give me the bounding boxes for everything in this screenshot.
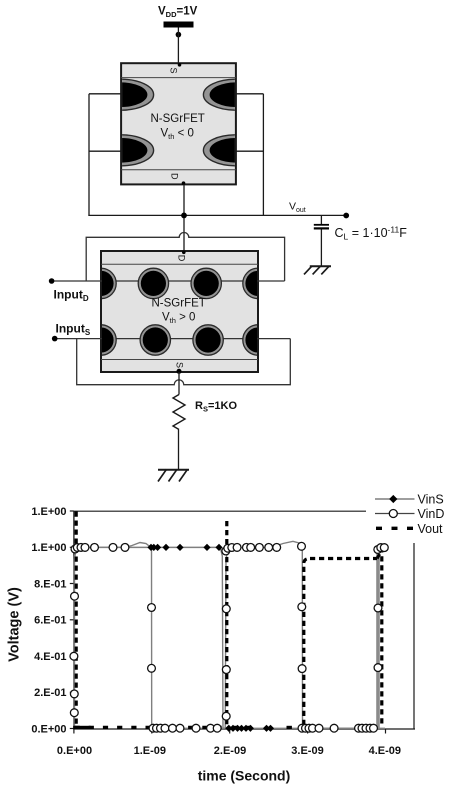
wire U1 left gates (89, 94, 121, 216)
capacitor C1 plates (314, 225, 329, 229)
legend Vout (376, 522, 443, 536)
svg-text:4.E-01: 4.E-01 (34, 651, 66, 663)
power supply VDD rail bar (164, 22, 194, 28)
svg-text:S: S (169, 67, 179, 73)
svg-text:Vout: Vout (418, 522, 444, 536)
series Vout dashed rising edge at 3ns (304, 559, 310, 726)
chart x axis (73, 728, 415, 730)
series VinD second-rise thick gray edge (376, 549, 380, 729)
wire U2 gate row2 (InputS bus) (55, 338, 291, 340)
node at U2 source (177, 369, 182, 374)
node at U2 drain (182, 251, 186, 255)
svg-text:Vth < 0: Vth < 0 (161, 128, 194, 142)
wire U1 right gates (236, 94, 264, 216)
chart y tick labels (31, 506, 66, 736)
wire VDD to U1 source (177, 28, 179, 64)
svg-text:0.E+00: 0.E+00 (57, 745, 92, 757)
transistor U1 N-SGrFET Vth<0 body (121, 63, 236, 184)
svg-text:D: D (169, 173, 179, 180)
node at U1 source (178, 63, 182, 67)
svg-text:8.E-01: 8.E-01 (34, 578, 66, 590)
svg-text:1.E-09: 1.E-09 (134, 745, 166, 757)
series Vout dashed falling edge at 4ns (377, 549, 382, 727)
power supply VDD label (158, 5, 198, 18)
node Vout terminal (343, 213, 349, 219)
transistor U1 gate fingers (four half-ellipses) (89, 79, 269, 166)
wire InputD feedback loop over to right gates (hop over drain wire) (86, 233, 284, 282)
svg-text:2.E-01: 2.E-01 (34, 687, 66, 699)
chart y tick marks (70, 511, 74, 729)
svg-text:N-SGrFET: N-SGrFET (151, 113, 205, 125)
transistor U2 label (152, 298, 206, 326)
series Vout dashed glitch spike near 2ns (225, 521, 228, 727)
svg-text:Vth > 0: Vth > 0 (162, 312, 195, 326)
svg-text:2.E-09: 2.E-09 (214, 745, 246, 757)
series VinD line (74, 541, 385, 728)
svg-text:RS=1KO: RS=1KO (195, 400, 237, 414)
resistor RS (173, 395, 185, 430)
ground under C1 (304, 266, 331, 275)
chart x tick labels (57, 745, 401, 757)
svg-text:Voltage (V): Voltage (V) (7, 587, 23, 662)
node Vout junction (181, 213, 187, 219)
wire U2 source to resistor (178, 372, 180, 395)
svg-text:6.E-01: 6.E-01 (34, 615, 66, 627)
transistor U2 N-SGrFET Vth>0 body (101, 251, 258, 372)
chart frame top (74, 510, 366, 512)
svg-text:time (Second): time (Second) (198, 768, 291, 784)
series Vout dashed high segment (310, 557, 377, 560)
chart x tick marks (74, 729, 386, 734)
chart frame right (413, 543, 415, 729)
series Vout dashed initial fall at t=0 (75, 512, 78, 728)
series VinS markers (filled diamonds) (147, 544, 274, 732)
series Vout dashed low segment 1 (75, 726, 222, 729)
wire node Vout horizontal (88, 214, 347, 216)
svg-text:VinD: VinD (418, 507, 445, 521)
legend VinS (375, 493, 444, 507)
wire U1 drain to node Vout and U2 drain (183, 184, 185, 251)
svg-text:VinS: VinS (418, 493, 444, 507)
svg-text:1.E+00: 1.E+00 (31, 506, 66, 518)
svg-text:N-SGrFET: N-SGrFET (152, 298, 206, 310)
svg-text:4.E-09: 4.E-09 (369, 745, 401, 757)
node InputS terminal (52, 336, 58, 342)
chart y axis (73, 511, 75, 729)
svg-text:D: D (177, 255, 187, 262)
node VDD (176, 32, 182, 38)
svg-text:1.E+00: 1.E+00 (31, 542, 66, 554)
transistor U1 label (151, 113, 205, 141)
wire InputS loop under to right gates (hop over source wire) (77, 339, 291, 385)
wire resistor to ground (178, 430, 180, 470)
svg-text:0.E+00: 0.E+00 (31, 723, 66, 735)
transistor U2 gate cylinders (two rows of circles) (86, 268, 273, 355)
capacitor C1 leads (320, 215, 322, 266)
node at U1 drain (182, 181, 186, 185)
wire U2 gate row1 (InputD bus) (52, 280, 285, 282)
svg-text:3.E-09: 3.E-09 (291, 745, 323, 757)
series Vout dashed low segment 2 (232, 726, 292, 729)
series VinS line (75, 547, 386, 728)
legend VinD (375, 507, 444, 521)
series VinD markers (open circles) (70, 542, 388, 732)
svg-text:S: S (175, 362, 185, 368)
node InputD terminal (49, 278, 55, 284)
ground under RS (158, 469, 189, 481)
svg-text:VDD=1V: VDD=1V (158, 5, 198, 18)
